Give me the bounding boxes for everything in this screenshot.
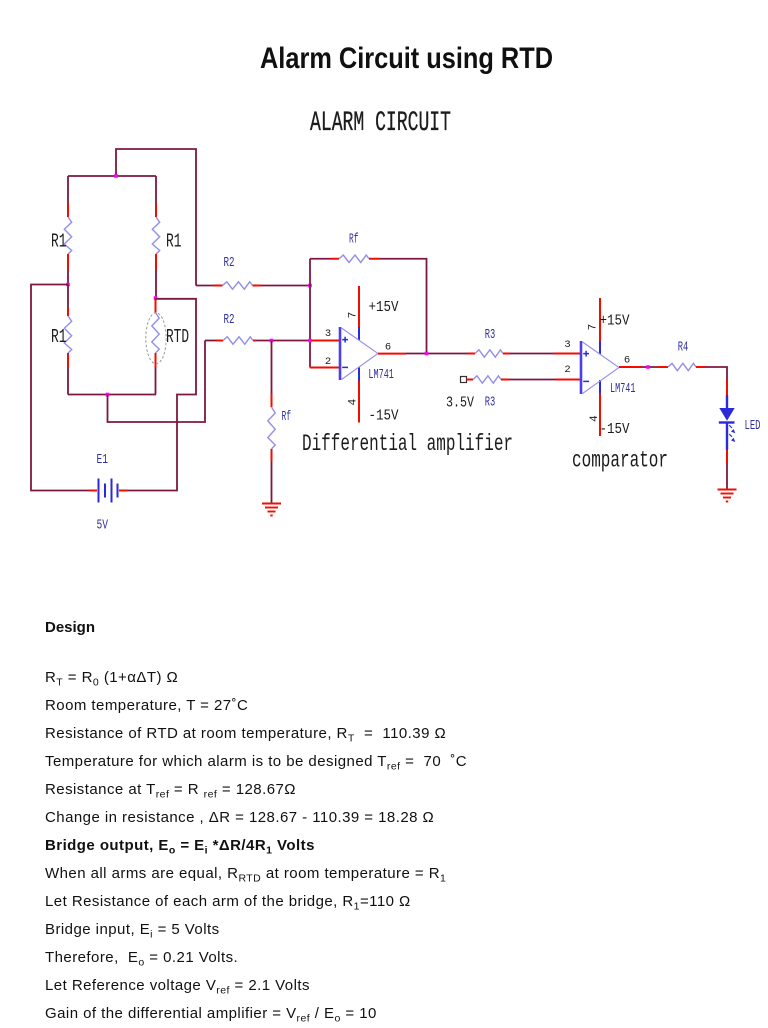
svg-text:R2: R2 xyxy=(224,312,235,328)
svg-text:R1: R1 xyxy=(51,231,67,253)
wire pin2 red stub U1 xyxy=(310,367,340,369)
svg-text:Differential amplifier: Differential amplifier xyxy=(302,431,513,457)
resistor R3 upper xyxy=(467,327,581,357)
svg-text:Alarm Circuit using RTD: Alarm Circuit using RTD xyxy=(260,42,553,75)
input terminal 3.5V xyxy=(461,377,467,383)
LED D1 xyxy=(719,380,761,489)
resistor R4 xyxy=(658,340,727,381)
svg-text:2: 2 xyxy=(325,356,331,368)
node F pin3 junction dot xyxy=(270,339,274,343)
op-amp U1 LM741 xyxy=(325,327,394,383)
svg-text:R2: R2 xyxy=(224,255,235,271)
svg-text:6: 6 xyxy=(385,342,391,354)
svg-text:comparator: comparator xyxy=(572,448,668,474)
svg-text:-15V: -15V xyxy=(600,421,630,438)
battery E1 xyxy=(90,452,128,534)
svg-text:3: 3 xyxy=(564,339,570,351)
svg-text:+15V: +15V xyxy=(369,299,399,316)
svg-text:ALARM CIRCUIT: ALARM CIRCUIT xyxy=(310,108,451,139)
node G crossover dot xyxy=(308,339,312,343)
wire mid-left node to battery xyxy=(31,285,90,491)
wire bridge top to R2a loop xyxy=(116,149,196,286)
wire bridge bottom rail xyxy=(68,394,156,396)
wire RTD node to battery plus xyxy=(128,299,197,491)
svg-text:7: 7 xyxy=(588,324,600,331)
resistor R2 lower xyxy=(205,312,310,344)
svg-text:Rf: Rf xyxy=(282,409,292,425)
resistor RTD xyxy=(146,298,189,395)
op-amp U2 LM741 xyxy=(564,339,635,397)
resistor R1 top-right xyxy=(152,176,181,298)
resistor R2 upper xyxy=(196,255,310,289)
resistor R1 bottom-left xyxy=(51,285,72,395)
svg-text:Rf: Rf xyxy=(349,232,359,248)
ground under Rf xyxy=(262,504,281,516)
svg-text:E1: E1 xyxy=(97,452,109,468)
svg-text:2: 2 xyxy=(564,364,570,376)
op-amp U2 power -15V xyxy=(589,380,630,438)
svg-text:+15V: +15V xyxy=(600,313,630,330)
resistor R3 lower xyxy=(446,376,581,412)
wire U1 output xyxy=(378,353,467,355)
wire inverting input column xyxy=(309,259,311,368)
wire bridge top rail xyxy=(68,175,156,177)
wire bottom node to R2b xyxy=(108,341,206,423)
ground under LED xyxy=(718,490,737,502)
resistor Rf to ground xyxy=(268,341,291,503)
svg-text:R3: R3 xyxy=(485,327,496,343)
node H output junction dot xyxy=(425,352,429,356)
svg-text:LED: LED xyxy=(745,418,761,434)
svg-text:LM741: LM741 xyxy=(610,381,636,397)
design heading xyxy=(45,620,95,635)
svg-text:3: 3 xyxy=(325,328,331,340)
resistor Rf feedback xyxy=(310,232,427,354)
svg-text:3.5V: 3.5V xyxy=(446,394,474,411)
svg-text:5V: 5V xyxy=(97,518,109,534)
op-amp U2 power +15V xyxy=(588,298,630,354)
node I output junction dot xyxy=(646,365,650,369)
svg-text:-15V: -15V xyxy=(369,408,399,425)
svg-text:LM741: LM741 xyxy=(368,367,394,383)
svg-text:4: 4 xyxy=(589,415,601,422)
node A junction dot xyxy=(114,174,118,178)
node B mid-left junction dot xyxy=(66,283,70,287)
resistor R1 top-left xyxy=(51,176,72,285)
wire pin3 red stub U1 xyxy=(310,340,340,342)
node E R2 junction dot xyxy=(308,284,312,288)
svg-text:6: 6 xyxy=(624,355,630,367)
svg-text:R1: R1 xyxy=(51,326,67,348)
svg-text:4: 4 xyxy=(348,398,360,405)
node D bottom junction dot xyxy=(106,393,110,397)
op-amp U1 power -15V xyxy=(348,367,399,424)
svg-text:7: 7 xyxy=(348,312,360,319)
svg-text:R3: R3 xyxy=(485,395,496,411)
svg-text:RTD: RTD xyxy=(166,326,189,348)
svg-text:R4: R4 xyxy=(678,340,689,356)
svg-text:R1: R1 xyxy=(166,231,182,253)
design text xyxy=(45,664,467,1028)
op-amp U1 power +15V xyxy=(348,286,399,340)
wire U2 output xyxy=(619,366,658,368)
node C RTD-top junction dot xyxy=(154,296,158,300)
